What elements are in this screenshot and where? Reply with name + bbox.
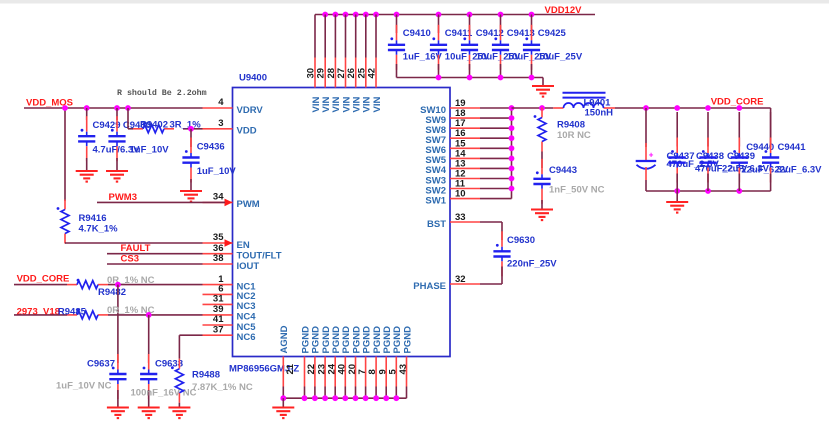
pin 38 IOUT (left) xyxy=(203,253,260,272)
capacitor C9436 xyxy=(182,129,236,191)
pin 35 EN (left) xyxy=(203,232,250,251)
svg-text:R9488: R9488 xyxy=(192,370,220,381)
junction SW bus xyxy=(509,156,515,162)
pin 36 TOUT/FLT (left) xyxy=(203,243,282,262)
junction PGND bus xyxy=(393,395,399,401)
capacitor C9429 xyxy=(78,108,140,171)
wire SW1 to bus xyxy=(480,198,512,200)
pin 14 SW5 (right) xyxy=(425,148,480,166)
junction SW bus xyxy=(509,125,515,131)
junction VDD_MOS/C9429 xyxy=(84,105,90,111)
junction PGND bus xyxy=(322,395,328,401)
svg-text:C9637: C9637 xyxy=(87,359,115,370)
svg-text:1uF_10V: 1uF_10V xyxy=(130,145,170,156)
wire VDD_CORE rail right corner xyxy=(770,108,772,147)
svg-text:34: 34 xyxy=(213,192,224,203)
pin 27 VIN (top) xyxy=(336,58,352,113)
svg-text:IOUT: IOUT xyxy=(237,261,260,272)
wire SW2 to bus xyxy=(480,188,512,190)
wire 2973_V18 to R9485 xyxy=(14,314,67,316)
resistor R9402 3R_1% xyxy=(128,108,203,133)
svg-text:R9482: R9482 xyxy=(98,287,126,298)
svg-text:100nF_16V NC: 100nF_16V NC xyxy=(131,388,197,399)
wire SW8 to bus xyxy=(480,127,512,129)
capacitor C9425 10uF_25V xyxy=(523,15,583,78)
svg-text:150nH: 150nH xyxy=(585,108,614,119)
ground for C9436 xyxy=(180,191,202,202)
capacitor C9411 10uF_25V xyxy=(430,15,490,78)
junction R9402/C9436/VDD xyxy=(188,126,194,132)
pin x PGND (bottom) xyxy=(402,326,413,398)
wire SW7 to bus xyxy=(480,137,512,139)
wire R9482 to NC1 xyxy=(108,284,203,286)
svg-text:VDD_CORE: VDD_CORE xyxy=(17,274,70,285)
wire PWM3 to PWM pin xyxy=(97,201,225,203)
ground for C9429 xyxy=(76,171,98,182)
junction PGND bus xyxy=(373,395,379,401)
junction PGND bus xyxy=(342,395,348,401)
pin 30 VIN (top) xyxy=(306,58,322,113)
pin 25 VIN (top) xyxy=(356,58,372,113)
pin 19 SW10 (right) xyxy=(420,98,480,116)
svg-text:42: 42 xyxy=(367,68,378,79)
pin 6 NC2 (left) xyxy=(203,284,256,303)
svg-text:PGND: PGND xyxy=(300,326,311,354)
junction VDD_MOS/C9430 xyxy=(114,105,120,111)
junction SW bus xyxy=(509,176,515,182)
IC U9400 MP86956GMJ-Z body xyxy=(233,88,451,357)
pin 34 PWM (left) xyxy=(203,192,260,211)
ground for input caps xyxy=(532,86,554,97)
svg-text:C9441: C9441 xyxy=(778,142,807,153)
junction SW bus xyxy=(509,105,515,111)
wire R9408 to C9443 xyxy=(541,152,543,169)
wire SW6 to bus xyxy=(480,147,512,149)
junction PGND bus xyxy=(353,395,359,401)
pin 17 SW8 (right) xyxy=(425,118,480,136)
svg-text:C9630: C9630 xyxy=(507,235,535,246)
pin 32 PHASE (right) xyxy=(413,274,480,292)
capacitor C9440 22uF_6.3V xyxy=(731,112,789,191)
wire ground branch output bank xyxy=(676,191,678,202)
svg-text:32: 32 xyxy=(455,274,466,285)
svg-text:3R_1%: 3R_1% xyxy=(170,120,202,131)
junction PGND bus xyxy=(363,395,369,401)
junction SW bus xyxy=(509,145,515,151)
junction rail/C9413 xyxy=(498,12,504,18)
svg-text:37: 37 xyxy=(213,324,224,335)
svg-text:VDD: VDD xyxy=(237,126,257,137)
svg-text:PGND: PGND xyxy=(361,326,372,354)
inductor L9401 150nH xyxy=(553,93,615,119)
junction PGND bus xyxy=(280,395,286,401)
wire R9416 to EN xyxy=(65,242,203,244)
wire to input-cap ground xyxy=(542,78,544,87)
junction caps bottom rail xyxy=(436,75,442,81)
pin 33 BST (right) xyxy=(427,212,480,230)
pin 1 NC1 (left) xyxy=(203,274,257,293)
pin 41 NC5 (left) xyxy=(203,314,257,333)
wire CS3 to IOUT xyxy=(107,263,203,265)
junction rail/C9412 xyxy=(467,12,473,18)
svg-text:7.87K_1% NC: 7.87K_1% NC xyxy=(192,382,253,393)
svg-text:R9416: R9416 xyxy=(79,213,107,224)
wire VDD_MOS rail xyxy=(24,107,203,109)
pin 28 VIN (top) xyxy=(326,58,342,113)
junction rail/C9411 xyxy=(436,12,442,18)
pin 31 NC3 (left) xyxy=(203,294,256,313)
wire FAULT to TOUT/FLT xyxy=(107,253,203,255)
svg-text:+: + xyxy=(649,151,654,160)
capacitor C9638 100nF_16V NC xyxy=(131,354,197,408)
svg-text:38: 38 xyxy=(213,253,224,264)
svg-text:4.7K_1%: 4.7K_1% xyxy=(79,224,119,235)
resistor R9408 10R NC xyxy=(534,108,591,152)
junction VIN rail xyxy=(333,12,339,18)
capacitor C9441 22uF_6.3V xyxy=(762,112,822,191)
resistor R9482 0R_1% NC xyxy=(67,275,155,298)
pin 40 PGND (bottom) xyxy=(331,326,348,398)
junction SW/R9408 xyxy=(539,105,545,111)
svg-text:C9443: C9443 xyxy=(549,165,577,176)
svg-text:SW1: SW1 xyxy=(425,195,446,206)
wire NC6 to R9488 xyxy=(179,334,202,336)
ground for AGND/PGND xyxy=(272,408,294,419)
capacitor C9437 470uF_2.5V electrolytic xyxy=(636,108,720,191)
junction SW bus xyxy=(509,186,515,192)
pin 22 PGND (bottom) xyxy=(300,326,317,398)
capacitor C9637 1uF_10V NC xyxy=(56,354,127,408)
junction VDD_CORE rail xyxy=(705,105,711,111)
ground for output caps xyxy=(666,202,688,213)
pin 12 SW3 (right) xyxy=(425,169,480,187)
capacitor C9430 xyxy=(108,108,169,171)
pin 39 NC4 (left) xyxy=(203,304,257,323)
junction rail/C9425 xyxy=(529,12,535,18)
pin 21 AGND (bottom) xyxy=(279,325,296,398)
junction R9482/C9637 xyxy=(115,282,121,288)
svg-text:21: 21 xyxy=(285,363,296,374)
junction VDD_CORE rail xyxy=(736,105,742,111)
junction output bottom rail xyxy=(674,188,680,194)
pin 20 PGND (bottom) xyxy=(341,326,358,398)
junction PGND bus xyxy=(383,395,389,401)
pin 15 SW6 (right) xyxy=(425,138,480,156)
ground for R9488 xyxy=(168,408,190,419)
svg-text:PHASE: PHASE xyxy=(413,281,446,292)
svg-text:NC6: NC6 xyxy=(237,332,256,343)
junction PGND bus xyxy=(312,395,318,401)
svg-text:BST: BST xyxy=(427,219,446,230)
svg-text:22uF_6.3V: 22uF_6.3V xyxy=(775,165,823,176)
capacitor C9413 10uF_25V xyxy=(492,15,552,78)
wire SW5 to bus xyxy=(480,157,512,159)
junction VDD_MOS/R9402 branch xyxy=(125,105,131,111)
wire input caps bottom rail xyxy=(397,77,544,79)
svg-text:1uF_16V: 1uF_16V xyxy=(403,52,443,63)
svg-text:4: 4 xyxy=(218,97,224,108)
svg-text:3: 3 xyxy=(218,118,223,129)
junction VDD_CORE rail xyxy=(674,105,680,111)
wire inductor to VDD_CORE rail xyxy=(615,107,771,109)
svg-text:C9413: C9413 xyxy=(507,28,535,39)
resistor R9416 4.7K_1% xyxy=(57,200,119,244)
wire SW node to inductor xyxy=(512,107,554,109)
svg-text:U9400: U9400 xyxy=(239,73,267,84)
capacitor C9438 470uF_2.5V xyxy=(669,112,748,191)
wire SW bus vertical xyxy=(511,108,513,199)
junction SW bus xyxy=(509,135,515,141)
wire VDD12V top rail xyxy=(315,14,595,16)
svg-text:EN: EN xyxy=(237,240,250,251)
pin 37 NC6 (left) xyxy=(203,324,256,343)
wire output caps bottom rail xyxy=(646,190,771,192)
svg-text:PGND: PGND xyxy=(402,326,413,354)
pin 8 PGND (bottom) xyxy=(361,326,378,398)
pin 24 PGND (bottom) xyxy=(321,326,338,398)
junction R9485/C9638 xyxy=(146,312,152,318)
wire SW4 to bus xyxy=(480,167,512,169)
capacitor C9410 1uF_16V xyxy=(388,15,443,78)
pin 43 PGND (bottom) xyxy=(392,326,409,398)
pin 29 VIN (top) xyxy=(316,58,332,113)
svg-text:AGND: AGND xyxy=(279,325,290,353)
svg-text:VDD_CORE: VDD_CORE xyxy=(711,97,764,108)
junction caps bottom rail xyxy=(498,75,504,81)
svg-text:1uF_10V NC: 1uF_10V NC xyxy=(56,381,112,392)
wire SW10 to bus xyxy=(480,107,512,109)
svg-text:33: 33 xyxy=(455,212,466,223)
junction rail/C9410 xyxy=(394,12,400,18)
pin 13 SW4 (right) xyxy=(425,158,480,176)
junction SW bus xyxy=(509,115,515,121)
svg-text:31: 31 xyxy=(213,294,224,305)
junction PGND bus xyxy=(332,395,338,401)
wire branch to R9416 xyxy=(64,108,66,201)
pin 42 VIN (top) xyxy=(367,58,383,113)
wire branch to C9638 xyxy=(148,315,150,363)
junction PGND bus xyxy=(302,395,308,401)
junction output bottom rail xyxy=(736,188,742,194)
pin 10 SW1 (right) xyxy=(425,189,480,207)
junction VIN rail xyxy=(373,12,379,18)
junction caps bottom rail xyxy=(467,75,473,81)
svg-text:1uF_10V: 1uF_10V xyxy=(197,166,237,177)
wire R9485 to NC4 xyxy=(108,314,203,316)
wire SW9 to bus xyxy=(480,117,512,119)
resistor R9488 7.87K_1% NC xyxy=(171,359,253,408)
pin 23 PGND (bottom) xyxy=(311,326,328,398)
svg-text:R9402: R9402 xyxy=(140,120,168,131)
junction VDD_CORE rail xyxy=(643,105,649,111)
wire SW3 to bus xyxy=(480,178,512,180)
junction VIN rail xyxy=(363,12,369,18)
junction SW bus xyxy=(509,166,515,172)
svg-text:35: 35 xyxy=(213,232,224,243)
pin 3 VDD (left) xyxy=(203,118,257,137)
svg-text:R9408: R9408 xyxy=(557,120,585,131)
svg-text:C9412: C9412 xyxy=(476,28,504,39)
pin 16 SW7 (right) xyxy=(425,128,480,146)
svg-text:PWM3: PWM3 xyxy=(109,192,138,203)
svg-text:FAULT: FAULT xyxy=(121,243,151,254)
svg-text:NC3: NC3 xyxy=(237,301,256,312)
wire VIN down-leads xyxy=(315,15,376,58)
ground for C9637 xyxy=(107,408,129,419)
pin 26 VIN (top) xyxy=(346,58,362,113)
pin 5 PGND (bottom) xyxy=(382,326,399,398)
svg-text:220nF_25V: 220nF_25V xyxy=(507,259,557,270)
svg-text:PWM: PWM xyxy=(237,199,260,210)
capacitor C9412 10uF_25V xyxy=(461,15,521,78)
svg-text:C9425: C9425 xyxy=(538,28,567,39)
svg-text:10R NC: 10R NC xyxy=(557,130,591,141)
junction VDD_MOS/R9416 xyxy=(62,105,68,111)
wire PGND ground bus xyxy=(283,397,406,399)
svg-text:CS3: CS3 xyxy=(121,253,139,264)
ground for C9443 xyxy=(531,210,553,221)
svg-text:10uF_25V: 10uF_25V xyxy=(538,52,583,63)
pin 7 PGND (bottom) xyxy=(351,326,368,398)
svg-text:1nF_50V NC: 1nF_50V NC xyxy=(549,185,605,196)
pin 9 PGND (bottom) xyxy=(372,326,389,398)
svg-text:C9410: C9410 xyxy=(403,28,431,39)
junction VIN rail xyxy=(322,12,328,18)
capacitor C9630 220nF_25V xyxy=(480,222,557,284)
resistor R9485 0R_1% NC xyxy=(58,305,155,319)
wire VDD_CORE to R9482 xyxy=(14,284,67,286)
pin 4 VDRV (left) xyxy=(203,97,264,116)
pin 18 SW9 (right) xyxy=(425,108,480,126)
pin 11 SW2 (right) xyxy=(425,179,480,197)
ground for C9638 xyxy=(138,408,160,419)
junction VIN rail xyxy=(353,12,359,18)
svg-text:R9485: R9485 xyxy=(58,307,87,318)
svg-text:2973_V18: 2973_V18 xyxy=(17,307,60,318)
ground for C9430 xyxy=(106,171,128,182)
wire branch to C9637 xyxy=(117,285,119,363)
svg-text:C9436: C9436 xyxy=(197,142,225,153)
svg-text:R should Be 2.2ohm: R should Be 2.2ohm xyxy=(117,88,207,98)
svg-text:VIN: VIN xyxy=(372,97,383,113)
junction output bottom rail xyxy=(705,188,711,194)
capacitor C9439 22uF_6.3V xyxy=(699,112,769,191)
junction VIN rail xyxy=(343,12,349,18)
capacitor C9443 1nF_50V NC xyxy=(533,159,604,210)
junction caps bottom rail xyxy=(529,75,535,81)
wire AGND to ground xyxy=(282,398,284,407)
svg-text:10: 10 xyxy=(455,189,466,200)
svg-text:VDRV: VDRV xyxy=(237,105,264,116)
